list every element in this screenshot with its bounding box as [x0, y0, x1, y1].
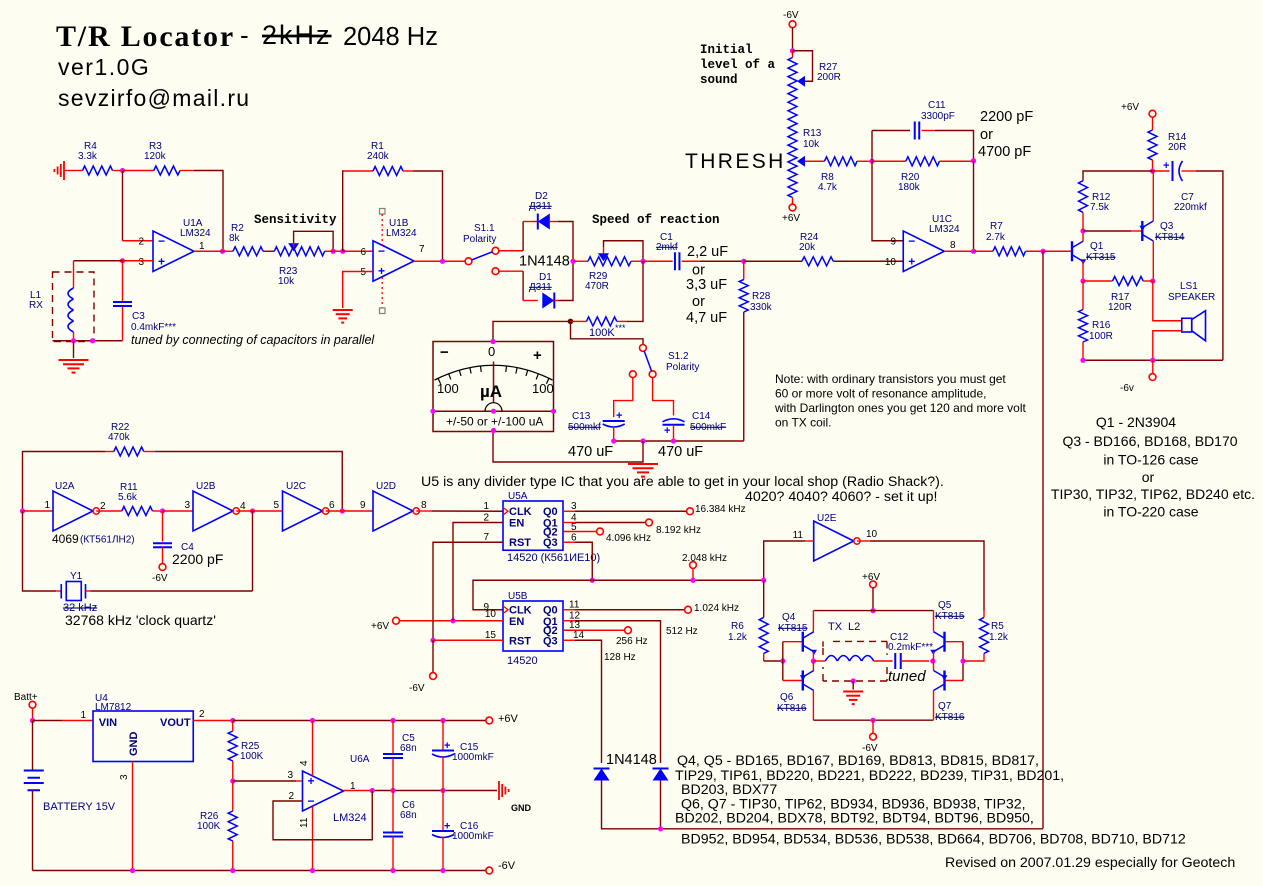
junction meter divider left: [430, 409, 435, 414]
transistor Q5 (NPN mirrored): [930, 600, 965, 655]
terminal -6V TX: [862, 720, 878, 754]
terminal -6v (speaker amp): [1120, 360, 1156, 394]
wire C11 right down to U1C output: [935, 131, 974, 161]
svg-text:4020? 4040? 4060? - set it up!: 4020? 4040? 4060? - set it up!: [745, 489, 937, 505]
svg-text:level of a: level of a: [700, 58, 776, 72]
svg-text:LM324: LM324: [180, 228, 211, 239]
wire U1A output to node: [194, 250, 223, 252]
wire EN net up to U5A EN: [453, 523, 503, 621]
transistor Q1 2N3904 (NPN): [1072, 241, 1116, 265]
resistor R22 470k (osc feedback): [23, 422, 343, 511]
wire node A to R3: [123, 170, 154, 172]
resistor R7 2.7k: [974, 221, 1044, 256]
junction R23 right / wiper: [331, 249, 336, 254]
svg-text:or: or: [692, 294, 705, 310]
wire base node to Q4 base: [782, 642, 784, 661]
svg-text:−: −: [440, 344, 449, 361]
wire U6A feedback loop: [273, 791, 372, 840]
svg-text:VIN: VIN: [99, 717, 117, 729]
wire input to U2A: [23, 510, 54, 512]
wire S1.2 right throw to C14: [653, 378, 674, 416]
svg-text:+6V: +6V: [371, 621, 389, 632]
terminal 16.384 kHz: [687, 504, 746, 515]
junction TX ground: [851, 678, 856, 683]
junction Q1 emitter / R17 / R16: [1080, 278, 1085, 283]
wire 2.048 kHz line right: [592, 579, 763, 581]
svg-text:3: 3: [138, 257, 144, 268]
svg-text:470R: 470R: [585, 281, 609, 292]
junction Q4/Q6 base node: [780, 658, 785, 663]
svg-text:+: +: [1163, 160, 1169, 172]
resistor R25 100K: [228, 721, 263, 782]
junction TX right node: [930, 658, 935, 663]
svg-text:470 uF: 470 uF: [658, 444, 703, 460]
junction 100K left node (dark): [568, 319, 574, 325]
svg-text:U2E: U2E: [817, 513, 837, 524]
junction R7 right / Q1 base: [1040, 249, 1045, 254]
svg-text:8k: 8k: [229, 233, 241, 244]
svg-text:LS1: LS1: [1180, 281, 1198, 292]
svg-text:LM324: LM324: [386, 228, 417, 239]
transistor Q4 (NPN): [778, 612, 817, 655]
svg-text:Q7: Q7: [938, 701, 952, 712]
svg-text:470k: 470k: [108, 432, 131, 443]
wire Q1 collector up: [1082, 231, 1084, 242]
svg-text:THRESH: THRESH: [685, 150, 786, 173]
terminal 1.024 kHz: [685, 603, 739, 614]
terminal +6V (psu): [486, 713, 519, 725]
svg-text:180k: 180k: [898, 182, 921, 193]
svg-text:8.192 kHz: 8.192 kHz: [656, 525, 701, 536]
svg-text:6: 6: [360, 247, 366, 258]
svg-text:7: 7: [419, 244, 425, 255]
wire ground to R4: [64, 170, 76, 172]
junction U6A power top: [310, 718, 315, 723]
junction C6 bottom: [390, 868, 395, 873]
speaker LS1: [1168, 281, 1215, 341]
wire Q3 emitter up to +6V node: [1152, 171, 1154, 221]
wire +6V rail: [233, 720, 486, 722]
svg-text:CLK: CLK: [509, 506, 532, 518]
resistor R14 20R: [1148, 117, 1187, 171]
wire pin3 junction left and down to L1 coil: [74, 260, 123, 262]
svg-text:LM7812: LM7812: [95, 702, 132, 713]
wire base node to R5: [963, 654, 984, 662]
junction EN net: [450, 618, 455, 623]
label Q1 substitutes: [1051, 414, 1255, 520]
svg-text:9: 9: [890, 237, 896, 248]
svg-text:1: 1: [483, 501, 489, 512]
capacitor C16 1000mkF (polarized): [432, 791, 494, 871]
junction ground stub: [640, 438, 645, 443]
svg-text:100R: 100R: [1089, 331, 1113, 342]
diode 1N4148 left (clamp): [594, 768, 610, 770]
svg-text:C13: C13: [572, 411, 591, 422]
svg-text:200R: 200R: [817, 72, 841, 83]
svg-text:2kHz: 2kHz: [262, 20, 332, 50]
svg-text:Q3: Q3: [1160, 221, 1174, 232]
wire Q6 collector to -6V rail: [812, 691, 814, 721]
svg-text:-6V: -6V: [498, 860, 516, 872]
svg-text:Q4: Q4: [782, 612, 796, 623]
svg-text:16.384 kHz: 16.384 kHz: [695, 504, 746, 515]
svg-text:5: 5: [273, 500, 279, 511]
svg-text:2: 2: [199, 709, 205, 720]
junction C15 top: [440, 718, 445, 723]
svg-text:TX: TX: [828, 621, 843, 633]
wire D2 to output node: [558, 222, 573, 262]
wire R1 feedback left leg: [342, 171, 345, 251]
svg-text:U2D: U2D: [376, 481, 396, 492]
svg-text:with Darlington ones you get 1: with Darlington ones you get 120 and mor…: [774, 401, 1026, 415]
svg-text:RST: RST: [509, 537, 531, 549]
resistor R26 100K: [197, 781, 237, 871]
terminal 2.048 kHz: [682, 553, 727, 580]
junction Q3 collector / R17 right: [1150, 278, 1155, 283]
wire TX ground stub: [852, 681, 854, 690]
svg-text:µA: µA: [480, 382, 502, 401]
wire R29 right to C1 node: [631, 260, 643, 262]
U1B power stub top (gray square, dotted): [380, 209, 386, 215]
svg-text:-6V: -6V: [783, 10, 799, 21]
terminal -6V top: [783, 10, 799, 28]
svg-text:2048 Hz: 2048 Hz: [343, 23, 438, 51]
wire RST to U5B: [433, 639, 503, 641]
svg-text:68n: 68n: [400, 743, 417, 754]
junction box right: [90, 338, 95, 343]
transistor Q6 (PNP): [777, 671, 814, 715]
wire S1.2 left throw to C13: [614, 378, 633, 417]
svg-text:0: 0: [488, 344, 495, 359]
svg-text:2: 2: [483, 513, 489, 524]
svg-text:U2C: U2C: [286, 481, 306, 492]
svg-text:+6V: +6V: [1121, 102, 1139, 113]
terminal -6V (psu): [486, 860, 516, 874]
svg-text:1N4148: 1N4148: [606, 752, 657, 768]
svg-text:KT815: KT815: [778, 623, 808, 634]
svg-text:R28: R28: [752, 291, 771, 302]
svg-text:7.5k: 7.5k: [1090, 202, 1110, 213]
svg-text:10k: 10k: [278, 276, 295, 287]
wire U5A Q3 out (2.048 kHz) down: [563, 541, 575, 543]
terminal +6V TX: [862, 572, 880, 611]
wire U4 VOUT to +6V rail: [193, 720, 233, 722]
svg-text:in TO-126 case: in TO-126 case: [1103, 452, 1198, 468]
ground (meter/470uF): [628, 463, 658, 465]
svg-text:Note: with ordinary transistor: Note: with ordinary transistors you must…: [775, 372, 1006, 386]
svg-text:sevzirfo@mail.ru: sevzirfo@mail.ru: [58, 85, 250, 111]
wire 100K node to meter: [493, 321, 571, 341]
svg-text:1.024 kHz: 1.024 kHz: [694, 603, 739, 614]
capacitor C4 2200pF: [153, 511, 194, 564]
capacitor C15 1000mkF (polarized): [432, 721, 494, 791]
svg-text:Q4, Q5 - BD165, BD167, BD169,: Q4, Q5 - BD165, BD167, BD169, BD813, BD8…: [677, 753, 1039, 769]
svg-text:U5A: U5A: [508, 491, 528, 502]
wire U5A Q0 out to 16.384 kHz test point: [563, 510, 575, 512]
wire R2 to R23: [263, 250, 274, 252]
svg-text:8: 8: [950, 240, 956, 251]
svg-text:2,2 uF: 2,2 uF: [687, 244, 728, 260]
svg-text:R16: R16: [1092, 320, 1111, 331]
inverter U2E 4069: [793, 513, 878, 561]
svg-text:BD952, BD954, BD534, BD536, BD: BD952, BD954, BD534, BD536, BD538, BD664…: [681, 832, 1186, 848]
svg-text:8: 8: [421, 500, 427, 511]
wire divider mid to U6A pin3: [233, 780, 296, 782]
svg-text:3: 3: [571, 501, 577, 512]
svg-text:2200 pF: 2200 pF: [172, 551, 223, 567]
wire Q3 collector to speaker top lead: [1153, 281, 1182, 321]
svg-text:sound: sound: [700, 73, 738, 87]
svg-text:3.3k: 3.3k: [78, 151, 98, 162]
wire Q6 emitter to coil node: [812, 661, 814, 671]
wire junction to U2B: [163, 510, 194, 512]
svg-text:20k: 20k: [799, 242, 816, 253]
note text (transistor requirement): [774, 372, 1026, 430]
junction C5 top: [390, 718, 395, 723]
svg-text:100K: 100K: [197, 821, 221, 832]
svg-text:4700 pF: 4700 pF: [978, 144, 1031, 160]
wire Q5 collector to +6V rail: [933, 611, 935, 632]
svg-text:4: 4: [299, 760, 310, 766]
wire R13 bottom to +6V: [792, 198, 794, 205]
svg-text:100: 100: [532, 381, 554, 396]
potentiometer R29 470R: [573, 247, 631, 292]
svg-text:on TX coil.: on TX coil.: [775, 416, 831, 430]
wire S1.1 bottom throw to D1 branch: [499, 270, 523, 272]
svg-text:Q3 - BD166, BD168, BD170: Q3 - BD166, BD168, BD170: [1062, 433, 1237, 449]
svg-text:S1.1: S1.1: [474, 223, 495, 234]
svg-text:330k: 330k: [750, 302, 773, 313]
svg-text:in TO-220 case: in TO-220 case: [1103, 504, 1198, 520]
svg-text:5: 5: [571, 522, 577, 533]
svg-text:1: 1: [199, 241, 205, 252]
wire L1 bottom rail: [53, 340, 123, 342]
resistor R20 180k (feedback): [872, 157, 974, 193]
wire U1C output to node: [944, 250, 973, 252]
inverter U2C 4069: [273, 481, 335, 531]
wire Q4 collector to +6V rail: [812, 611, 814, 632]
junction TX left node: [811, 658, 816, 663]
junction R24/R28 node: [741, 259, 746, 264]
wire node down to bottom (TX drive): [1042, 251, 1044, 828]
svg-text:512 Hz: 512 Hz: [666, 626, 698, 637]
resistor R28 330k: [739, 261, 772, 313]
svg-text:Д311: Д311: [529, 201, 552, 212]
svg-text:Q0: Q0: [543, 506, 558, 518]
junction U6A power bottom: [310, 868, 315, 873]
wire R29 wiper up and to C1 node: [604, 241, 644, 262]
svg-text:GND: GND: [511, 803, 532, 813]
capacitor C11 3300pF (feedback): [872, 100, 955, 140]
svg-text:C14: C14: [692, 411, 711, 422]
svg-text:1000mkF: 1000mkF: [452, 831, 494, 842]
junction C15 bottom / gnd row: [440, 788, 445, 793]
svg-text:1: 1: [44, 500, 50, 511]
svg-text:+: +: [533, 347, 542, 364]
wire 470uF bottom rail: [614, 440, 744, 442]
resistor R2 8k: [223, 223, 264, 256]
junction clamp rail: [658, 826, 663, 831]
svg-text:KT816: KT816: [777, 703, 807, 714]
svg-text:68n: 68n: [400, 810, 417, 821]
wire +6V rail to R12: [1083, 171, 1153, 181]
inductor L2 TX coil: [813, 656, 892, 662]
diode D1 1N4148 (points right): [523, 272, 558, 309]
wire junction up to C11: [871, 131, 873, 162]
wire -6V TX rail: [813, 719, 933, 721]
svg-text:R5: R5: [991, 621, 1004, 632]
svg-text:C11: C11: [928, 100, 946, 111]
svg-text:+/-50 or +/-100 uA: +/-50 or +/-100 uA: [446, 415, 543, 429]
svg-text:Q1: Q1: [1090, 241, 1104, 252]
svg-text:3: 3: [287, 770, 293, 781]
svg-text:100K: 100K: [240, 751, 264, 762]
capacitor C7 220mkf (polarized): [1153, 160, 1208, 213]
capacitor C13 470uF (polarized): [568, 410, 625, 441]
junction U2C output: [340, 508, 345, 513]
op-amp U1B (LM324): [360, 218, 425, 281]
IC U5A 14520 counter: [503, 491, 563, 550]
ground (below U1B pin5): [333, 309, 353, 311]
wire U5B Q1 out (512 Hz) down to diode: [563, 620, 575, 622]
potentiometer R27 200R: [788, 51, 841, 100]
svg-text:tuned by connecting of capacit: tuned by connecting of capacitors in par…: [131, 333, 375, 347]
wire speaker bottom lead: [1153, 331, 1182, 361]
svg-text:+: +: [908, 254, 915, 268]
junction R16 bottom: [1080, 358, 1085, 363]
svg-text:−: −: [908, 234, 915, 248]
resistor R4 3.3k: [76, 141, 120, 175]
junction C16 bottom: [440, 868, 445, 873]
IC U4 LM7812 regulator: [93, 693, 193, 762]
inverter U2A 4069: [44, 481, 106, 531]
svg-text:Revised on 2007.01.29 especial: Revised on 2007.01.29 especially for Geo…: [945, 855, 1235, 871]
svg-text:KT815: KT815: [935, 611, 965, 622]
svg-text:1: 1: [80, 710, 86, 721]
svg-text:6: 6: [329, 500, 335, 511]
svg-text:RX: RX: [29, 300, 43, 311]
terminal -6V for RST: [409, 673, 436, 694]
wire U5B Q2 out to 256 Hz test point: [563, 629, 625, 631]
svg-text:500mkf: 500mkf: [568, 422, 601, 433]
wire C1 to R24 node: [700, 260, 744, 262]
svg-text:100K: 100K: [589, 327, 615, 339]
svg-text:60 or more volt of resonance a: 60 or more volt of resonance amplitude,: [775, 387, 986, 401]
wire speaker amp bottom rail: [1083, 359, 1223, 361]
resistor R17 120R: [1083, 277, 1153, 314]
svg-text:2.048 kHz: 2.048 kHz: [682, 553, 727, 564]
junction coil bottom: [71, 338, 76, 343]
svg-text:CLK: CLK: [509, 605, 532, 617]
svg-text:C3: C3: [132, 311, 145, 322]
crystal Y1 32768 kHz: [23, 511, 253, 601]
junction meter divider centre: [491, 409, 496, 414]
switch S1.2 Polarity: [629, 345, 699, 378]
svg-text:4.096 kHz: 4.096 kHz: [606, 533, 651, 544]
svg-text:−: −: [158, 234, 165, 248]
IC U5B 14520 counter: [503, 591, 563, 651]
wire R1 right leg down to U1B output: [413, 171, 443, 261]
junction U1B output / R1: [440, 259, 445, 264]
label Q4/Q5 substitutes list: [675, 753, 1186, 848]
terminal 8.192 kHz: [646, 519, 701, 536]
svg-text:KT816: KT816: [935, 712, 965, 723]
svg-text:-6V: -6V: [152, 573, 168, 584]
junction divider mid: [230, 778, 235, 783]
wire pin3 junction to U1A pin 3: [123, 260, 154, 262]
svg-text:3300pF: 3300pF: [921, 111, 955, 122]
svg-text:500mkF: 500mkF: [690, 422, 726, 433]
svg-text:LM324: LM324: [929, 224, 960, 235]
svg-text:EN: EN: [509, 518, 524, 530]
wire Q3 collector down: [1152, 241, 1154, 281]
wire Q4 emitter to coil node: [812, 652, 814, 662]
inverter U2D 4069: [373, 481, 427, 531]
terminal +6V (speaker amp): [1121, 102, 1156, 117]
svg-text:U5 is any divider type IC that: U5 is any divider type IC that you are a…: [421, 474, 944, 490]
junction RST net: [430, 638, 435, 643]
dashed box around L1: [53, 272, 95, 342]
wire U2B output down to Y1: [252, 511, 254, 591]
junction 2.048 kHz line: [590, 578, 595, 583]
svg-text:11: 11: [569, 600, 580, 611]
wire RST net down to -6V: [432, 640, 434, 672]
wire U5A Q1 out to 8.192 kHz test point: [563, 522, 575, 524]
diode D2 1N4148 (points left): [523, 191, 558, 230]
junction +6V TX rail: [870, 608, 875, 613]
svg-text:+: +: [616, 410, 622, 422]
svg-text:GND: GND: [128, 732, 140, 757]
svg-text:Initial: Initial: [700, 43, 753, 57]
svg-text:S1.2: S1.2: [668, 351, 689, 362]
transistor Q7 (PNP mirrored): [934, 671, 965, 724]
svg-text:14520 (К561ИЕ10): 14520 (К561ИЕ10): [507, 552, 600, 564]
svg-text:Speed of reaction: Speed of reaction: [592, 213, 720, 227]
svg-text:U5B: U5B: [508, 591, 528, 602]
svg-text:BATTERY 15V: BATTERY 15V: [43, 801, 116, 813]
svg-text:14: 14: [573, 630, 585, 641]
wire U5B Q3 out (128 Hz) down to diode: [563, 639, 575, 641]
ground (TX tank): [843, 691, 863, 693]
wire 2.048 node up to U2E input: [764, 541, 805, 580]
wire R6 to base node: [764, 660, 783, 662]
svg-text:-6v: -6v: [1120, 383, 1134, 394]
junction 2.048 at terminal: [690, 578, 695, 583]
ground (below L1): [59, 359, 89, 361]
U6A power pins to rails: [312, 721, 314, 777]
meter pivot: [485, 403, 502, 412]
svg-text:U2A: U2A: [55, 481, 75, 492]
wire U6A output / GND row: [344, 790, 373, 792]
coil L1 RX search coil: [29, 288, 74, 332]
terminal 4.096 kHz: [597, 528, 651, 544]
wire U4 GND down to -6V rail: [132, 762, 134, 871]
wire Q5/Q7 base network: [946, 641, 963, 643]
junction U6A output: [370, 788, 375, 793]
svg-text:240k: 240k: [367, 151, 390, 162]
svg-text:SPEAKER: SPEAKER: [1168, 292, 1215, 303]
junction -6V TX rail: [870, 718, 875, 723]
svg-text:10: 10: [885, 257, 897, 268]
junction U2B output: [250, 508, 255, 513]
svg-text:+: +: [308, 774, 315, 788]
wire U1B output pin7 to switch S1.1: [414, 260, 443, 262]
svg-text:5: 5: [360, 267, 366, 278]
wire 2.048 kHz line to U5B CLK: [473, 580, 592, 610]
wire Q7 collector to -6V rail: [933, 691, 935, 721]
svg-text:KT315: KT315: [1086, 252, 1116, 263]
junction Q1 collector / R12 / Q3 base: [1080, 228, 1085, 233]
